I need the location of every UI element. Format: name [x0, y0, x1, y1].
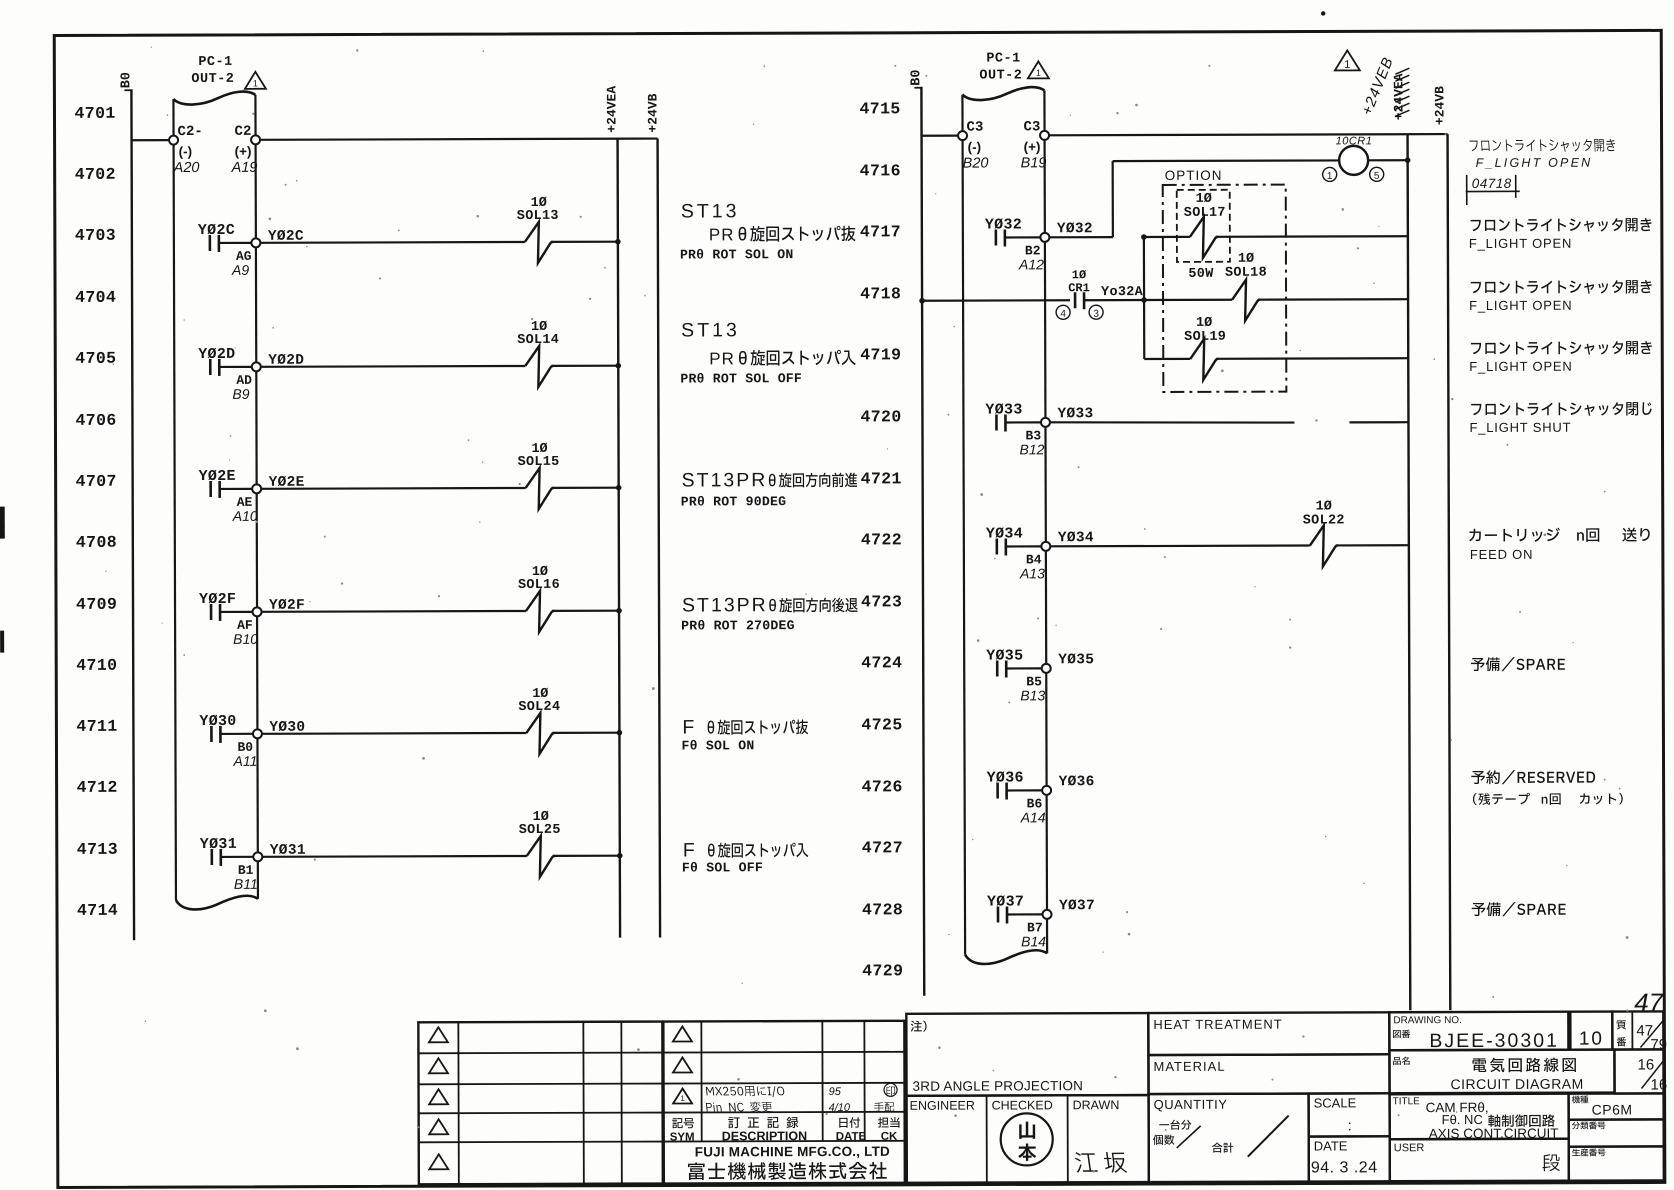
- svg-text:DATE: DATE: [836, 1131, 867, 1143]
- svg-text:ST13: ST13: [681, 319, 740, 341]
- svg-text:4708: 4708: [76, 533, 117, 552]
- svg-text:4729: 4729: [862, 961, 903, 980]
- rung description ST13 PR rot sol off: [680, 319, 856, 387]
- wire Y030 to solenoid: [262, 719, 527, 736]
- rung description ST13 PR rot 270deg: [681, 594, 858, 634]
- svg-text:4/10: 4/10: [829, 1102, 851, 1114]
- svg-text:1Ø: 1Ø: [1072, 268, 1086, 282]
- wire SOL24 to +24VEA rail: [552, 730, 622, 736]
- svg-text:YØ35: YØ35: [1058, 652, 1094, 668]
- svg-text:4701: 4701: [74, 104, 115, 123]
- wire SOL18 to +24VEA rail: [1258, 298, 1408, 301]
- revision triangle: [429, 1154, 448, 1169]
- class number box: [1569, 1119, 1664, 1146]
- svg-text:B10: B10: [233, 631, 258, 647]
- terminal B3 / B12: [1019, 418, 1050, 458]
- svg-text:OPTION: OPTION: [1165, 168, 1223, 183]
- solenoid SOL16 10: [518, 565, 560, 632]
- svg-text:HEAT TREATMENT: HEAT TREATMENT: [1153, 1017, 1282, 1032]
- quantity box: [1149, 1094, 1309, 1183]
- wire Y02C to solenoid: [260, 228, 525, 245]
- power rail 0B (right): [909, 70, 927, 996]
- contact Y037: [987, 893, 1042, 923]
- terminal B2 / A12: [1018, 233, 1050, 273]
- svg-text:4711: 4711: [76, 717, 117, 736]
- rung description ST13 PR rot 90deg: [681, 469, 858, 510]
- svg-text:Yo32A: Yo32A: [1101, 285, 1144, 300]
- description SPARE (4728): [1472, 902, 1566, 916]
- revision triangle: [429, 1119, 448, 1134]
- revision triangle: [429, 1089, 448, 1104]
- svg-text:94. 3 .24: 94. 3 .24: [1311, 1159, 1378, 1176]
- svg-text:A11: A11: [232, 753, 257, 769]
- svg-text:4705: 4705: [75, 349, 116, 368]
- revision triangle: [429, 1027, 448, 1042]
- description F_LIGHT SHUT (4720): [1469, 402, 1651, 435]
- wire bus C2+ to +24V rails: [260, 139, 657, 140]
- revision triangle: [673, 1026, 692, 1041]
- svg-text:YØ36: YØ36: [987, 769, 1024, 786]
- svg-text:B11: B11: [234, 876, 258, 892]
- svg-text:B12: B12: [1020, 441, 1045, 457]
- svg-text:A14: A14: [1020, 809, 1046, 825]
- svg-text:1Ø: 1Ø: [1316, 499, 1332, 514]
- date box: [1309, 1136, 1390, 1181]
- warning triangle 1 (right connector): [1028, 61, 1049, 78]
- wire SOL17 to +24VEA rail: [1216, 235, 1408, 238]
- svg-text:CP6M: CP6M: [1592, 1102, 1633, 1118]
- svg-text:CHECKED: CHECKED: [992, 1098, 1053, 1112]
- wire SOL16 to +24VEA rail: [552, 608, 622, 614]
- svg-text:PC-1: PC-1: [198, 55, 232, 70]
- svg-text:PRθ ROT 90DEG: PRθ ROT 90DEG: [681, 494, 787, 509]
- svg-text:YØ35: YØ35: [986, 647, 1023, 664]
- rung description F rot sol off: [682, 839, 809, 875]
- title box axis cont circuit: [1390, 1094, 1569, 1142]
- svg-text:A9: A9: [231, 262, 249, 278]
- svg-text:4725: 4725: [861, 715, 902, 734]
- rung description ST13 PR rot sol on: [680, 200, 856, 263]
- svg-text:YØ36: YØ36: [1059, 774, 1095, 790]
- svg-text:16: 16: [1651, 1076, 1668, 1093]
- wire bus from 0B to connector C2: [132, 139, 170, 141]
- contact Y02C: [198, 222, 251, 252]
- svg-text:Fθ SOL ON: Fθ SOL ON: [681, 738, 754, 753]
- svg-text:USER: USER: [1394, 1142, 1425, 1154]
- wire bus C3+ to +24V rails (right): [1049, 134, 1447, 135]
- revision table (left): [418, 1022, 663, 1185]
- heat treatment box: [1148, 1012, 1389, 1055]
- svg-text:F_LIGHT OPEN: F_LIGHT OPEN: [1469, 298, 1572, 313]
- solenoid SOL25 10: [519, 810, 561, 877]
- svg-text:4712: 4712: [77, 778, 118, 797]
- terminal C3- pin B20: [958, 120, 988, 172]
- power rail +24VB (left): [645, 93, 663, 937]
- solenoid SOL13 10: [517, 196, 559, 263]
- wire Y033 (interrupted): [1050, 405, 1409, 423]
- revision triangle: [429, 1058, 448, 1073]
- svg-text:C2-: C2-: [178, 124, 203, 140]
- contact Y02F: [199, 591, 252, 621]
- wire Y032 to coil branch: [1049, 221, 1113, 237]
- svg-text:(+): (+): [235, 144, 252, 159]
- svg-text:04718: 04718: [1472, 176, 1512, 191]
- svg-text:1: 1: [680, 1094, 685, 1103]
- svg-text:YØ2F: YØ2F: [199, 591, 236, 608]
- description RESERVED (4726): [1471, 770, 1623, 805]
- solenoid SOL22: [1303, 499, 1345, 566]
- power rail +24VEA (right, crossed out): [1391, 68, 1412, 1010]
- power rail +24VEA (left): [604, 86, 622, 938]
- description F_LIGHT OPEN (4718): [1469, 280, 1652, 313]
- svg-text:+24VB: +24VB: [1432, 86, 1447, 125]
- note box / projection: [906, 1013, 1148, 1096]
- svg-text:TITLE: TITLE: [1393, 1096, 1421, 1107]
- svg-text:F: F: [683, 839, 695, 861]
- revision triangle: [673, 1057, 692, 1072]
- svg-text:4720: 4720: [860, 407, 901, 426]
- company name FUJI MACHINE: [688, 1144, 890, 1180]
- contact Y02E: [199, 468, 252, 498]
- svg-text:95: 95: [829, 1086, 842, 1098]
- solenoid SOL14 10: [517, 320, 559, 387]
- wire SOL19 to +24VEA rail: [1216, 357, 1408, 360]
- node Y032A: [1084, 285, 1147, 303]
- svg-text:1Ø: 1Ø: [1196, 192, 1212, 207]
- wire Y02F to solenoid: [262, 597, 527, 614]
- svg-text:1Ø: 1Ø: [1238, 252, 1254, 267]
- svg-text:YØ2E: YØ2E: [199, 468, 236, 485]
- svg-text:4706: 4706: [75, 411, 116, 430]
- solenoid SOL24 10: [518, 687, 560, 754]
- svg-text:F_LIGHT OPEN: F_LIGHT OPEN: [1476, 156, 1593, 170]
- svg-text:4724: 4724: [861, 653, 902, 672]
- contact Y035: [986, 647, 1041, 677]
- product name circuit diagram box: [1389, 1050, 1614, 1094]
- right ladder line numbers 4715-4729: [859, 99, 903, 980]
- svg-text:4722: 4722: [861, 530, 902, 549]
- handwritten Esaka: [1074, 1152, 1127, 1173]
- terminal C2+ pin A19: [231, 124, 261, 176]
- svg-text:PR: PR: [709, 225, 735, 244]
- svg-text:C3: C3: [1024, 119, 1041, 135]
- svg-text:(-): (-): [968, 140, 982, 155]
- svg-text:ENGINEER: ENGINEER: [910, 1099, 975, 1113]
- svg-text:A13: A13: [1019, 565, 1045, 581]
- sheet number 10 box: [1570, 1012, 1612, 1050]
- svg-text:5: 5: [1374, 171, 1380, 182]
- svg-text:4707: 4707: [76, 472, 117, 491]
- svg-text:PRθ ROT SOL ON: PRθ ROT SOL ON: [680, 247, 794, 262]
- svg-text:B0: B0: [119, 72, 134, 88]
- svg-text:A20: A20: [173, 160, 200, 176]
- svg-text:C3: C3: [967, 120, 984, 136]
- svg-text:CIRCUIT DIAGRAM: CIRCUIT DIAGRAM: [1451, 1076, 1584, 1092]
- scan edge mark: [0, 507, 5, 539]
- terminal B0 / A11 on connector: [232, 729, 262, 769]
- description F_LIGHT OPEN (4717): [1469, 218, 1652, 251]
- contact Y036: [987, 769, 1042, 799]
- page 47/79 box: [1612, 1011, 1667, 1053]
- contact Y031: [200, 836, 253, 866]
- svg-text:1: 1: [1344, 59, 1350, 71]
- svg-text:4716: 4716: [860, 161, 901, 180]
- svg-text:PR: PR: [709, 349, 735, 368]
- svg-text:SCALE: SCALE: [1314, 1095, 1357, 1110]
- svg-text:4702: 4702: [75, 165, 116, 184]
- handwritten note 04718: [1466, 175, 1520, 205]
- power rail 0B (left): [119, 72, 137, 940]
- wire Y032 up to coil: [1112, 161, 1114, 237]
- wire Y034 to SOL22: [1050, 530, 1310, 547]
- revision triangle 1 with entry: [673, 1083, 897, 1114]
- contact Y032: [985, 216, 1040, 246]
- drawing number box BJEE-30301: [1389, 1012, 1568, 1053]
- svg-text:1Ø: 1Ø: [1196, 316, 1212, 331]
- svg-text:YØ33: YØ33: [1057, 406, 1093, 422]
- svg-text:PRθ ROT 270DEG: PRθ ROT 270DEG: [681, 618, 795, 633]
- production number box: [1569, 1146, 1664, 1180]
- terminal AD / B9 on connector: [232, 362, 261, 402]
- wire to SOL18: [1144, 299, 1232, 301]
- svg-text:C2: C2: [235, 124, 252, 140]
- terminal AG / A9 on connector: [231, 238, 261, 278]
- coil pin 1: [1323, 167, 1337, 182]
- wire SOL13 to +24VEA rail: [551, 239, 621, 245]
- svg-text:4714: 4714: [77, 901, 118, 920]
- revision table (middle): [663, 1021, 905, 1184]
- svg-text:DRAWN: DRAWN: [1073, 1098, 1120, 1112]
- contact 10 CR1 pins 4-3: [1068, 268, 1090, 309]
- connector PC-1 OUT-2 (right): [962, 51, 1047, 964]
- scan edge mark: [0, 631, 4, 653]
- svg-text:YØ34: YØ34: [1058, 530, 1094, 546]
- svg-text:3: 3: [1093, 309, 1099, 320]
- svg-text:4719: 4719: [860, 345, 901, 364]
- wire Y02E to solenoid: [261, 474, 526, 491]
- svg-text:4709: 4709: [76, 595, 117, 614]
- connector PC-1 OUT-2 (left): [173, 55, 258, 910]
- svg-text:YØ32: YØ32: [985, 216, 1022, 233]
- svg-text:4728: 4728: [862, 900, 903, 919]
- svg-text:FUJI MACHINE MFG.CO., LTD: FUJI MACHINE MFG.CO., LTD: [695, 1144, 890, 1160]
- solenoid SOL15 10: [518, 442, 560, 509]
- svg-text:4710: 4710: [76, 656, 117, 675]
- svg-text:YØ2C: YØ2C: [198, 222, 235, 239]
- svg-text:YØ37: YØ37: [1059, 898, 1095, 914]
- svg-text:4723: 4723: [861, 592, 902, 611]
- svg-text:B20: B20: [963, 156, 989, 172]
- contact pin 3: [1089, 305, 1103, 320]
- contact pin 4: [1056, 305, 1070, 320]
- material box: [1148, 1054, 1389, 1094]
- warning triangle 1 (top right): [1335, 50, 1360, 70]
- terminal B6 / A14: [1020, 786, 1052, 826]
- svg-text:4704: 4704: [75, 288, 116, 307]
- svg-text:F: F: [682, 716, 694, 738]
- svg-text:Fθ SOL OFF: Fθ SOL OFF: [682, 860, 763, 875]
- svg-text:B19: B19: [1021, 155, 1047, 171]
- terminal B5 / B13: [1020, 664, 1051, 704]
- svg-text:DATE: DATE: [1314, 1138, 1348, 1153]
- svg-text:PC-1: PC-1: [986, 51, 1020, 66]
- description F_LIGHT OPEN (handwritten): [1469, 139, 1615, 170]
- solenoid SOL17 (option): [1184, 192, 1226, 258]
- terminal B7 / B14: [1021, 910, 1052, 950]
- terminal AE / A10 on connector: [232, 484, 262, 524]
- rung description F rot sol on: [681, 716, 808, 753]
- svg-text:OUT-2: OUT-2: [979, 68, 1022, 83]
- contact Y02D: [198, 346, 251, 376]
- model CP6M box: [1569, 1093, 1664, 1119]
- SOL17 dashed sub-enclosure: [1177, 190, 1230, 262]
- svg-text:16: 16: [1637, 1056, 1654, 1073]
- svg-text:4: 4: [1060, 309, 1066, 320]
- terminal B4 / A13: [1019, 542, 1051, 582]
- svg-text:4715: 4715: [859, 99, 900, 118]
- terminal AF / B10 on connector: [233, 607, 262, 647]
- wire Y031 to solenoid: [262, 842, 527, 859]
- svg-text:DESCRIPTION: DESCRIPTION: [722, 1129, 807, 1143]
- svg-text:B14: B14: [1021, 933, 1046, 949]
- svg-text:F_LIGHT OPEN: F_LIGHT OPEN: [1469, 236, 1572, 251]
- svg-text:1: 1: [253, 78, 258, 88]
- svg-text:OUT-2: OUT-2: [191, 72, 234, 87]
- svg-text:+24VEA: +24VEA: [604, 86, 619, 133]
- svg-text:+24VB: +24VB: [645, 93, 660, 132]
- OPTION enclosure (dash-dot): [1163, 168, 1287, 392]
- wire SOL25 to +24VEA rail: [553, 853, 623, 859]
- svg-text:A10: A10: [232, 508, 258, 524]
- svg-text:F_LIGHT SHUT: F_LIGHT SHUT: [1469, 420, 1571, 435]
- svg-text:4718: 4718: [860, 284, 901, 303]
- svg-text:CR1: CR1: [1068, 281, 1090, 295]
- svg-text:QUANTITIY: QUANTITIY: [1154, 1097, 1228, 1112]
- svg-text:1: 1: [1327, 171, 1333, 182]
- svg-text:(-): (-): [179, 144, 193, 159]
- svg-text:3RD ANGLE PROJECTION: 3RD ANGLE PROJECTION: [913, 1078, 1084, 1094]
- solenoid SOL19: [1184, 316, 1226, 380]
- terminal C3+ pin B19: [1021, 119, 1050, 171]
- wire SOL22 to +24VEA rail: [1336, 544, 1409, 546]
- revision table headers: [670, 1117, 900, 1144]
- svg-text:DRAWING NO.: DRAWING NO.: [1393, 1015, 1462, 1026]
- svg-text:YØ30: YØ30: [199, 713, 236, 730]
- svg-text:A12: A12: [1018, 256, 1044, 272]
- warning triangle 1 (left): [245, 72, 266, 89]
- svg-text:4713: 4713: [77, 840, 118, 859]
- svg-text:FEED ON: FEED ON: [1470, 547, 1533, 562]
- solenoid SOL18: [1188, 252, 1267, 321]
- terminal C2- pin A20: [169, 124, 203, 176]
- svg-text:B0: B0: [909, 70, 924, 86]
- wire Y02D to solenoid: [261, 352, 526, 369]
- svg-text:4726: 4726: [862, 777, 903, 796]
- contact Y030: [199, 713, 252, 743]
- wire SOL14 to +24VEA rail: [551, 363, 621, 369]
- svg-text:MATERIAL: MATERIAL: [1153, 1059, 1225, 1074]
- svg-text:SYM: SYM: [670, 1131, 695, 1143]
- svg-text:YØ34: YØ34: [986, 525, 1023, 542]
- user box: [1390, 1139, 1569, 1182]
- wire 0B to CR1 contact: [919, 297, 1070, 303]
- svg-text:F_LIGHT OPEN: F_LIGHT OPEN: [1469, 359, 1572, 374]
- terminal B1 / B11 on connector: [234, 852, 263, 892]
- stamp Yamamoto: [1001, 1113, 1053, 1165]
- svg-text:YØ31: YØ31: [200, 836, 237, 853]
- svg-text:4727: 4727: [862, 838, 903, 857]
- power rail +24VB (right): [1432, 86, 1450, 1010]
- svg-text:B13: B13: [1020, 687, 1045, 703]
- description FEED ON (4722): [1469, 527, 1650, 562]
- contact Y034: [986, 525, 1041, 555]
- svg-text:4703: 4703: [75, 226, 116, 245]
- scale box: [1309, 1093, 1390, 1136]
- svg-text:(+): (+): [1024, 139, 1041, 154]
- svg-text:ST13PR: ST13PR: [682, 594, 768, 616]
- svg-text:4721: 4721: [861, 469, 902, 488]
- coil pin 5: [1370, 167, 1384, 182]
- wire Y032A branch to SOL17: [1141, 234, 1190, 240]
- wire to SOL19: [1144, 358, 1190, 360]
- svg-text:PRθ ROT SOL OFF: PRθ ROT SOL OFF: [680, 371, 802, 386]
- svg-text:YØ33: YØ33: [985, 401, 1022, 418]
- svg-text:ST13: ST13: [681, 200, 740, 222]
- svg-text:B9: B9: [232, 386, 249, 402]
- svg-text:CK: CK: [881, 1131, 898, 1143]
- svg-text::: :: [1348, 1117, 1352, 1134]
- wire bus from 0B to connector C3: [922, 135, 959, 137]
- svg-text:Fθ. NC: Fθ. NC: [1442, 1112, 1483, 1127]
- wire SOL15 to +24VEA rail: [552, 485, 622, 491]
- svg-text:4717: 4717: [860, 222, 901, 241]
- svg-text:ST13PR: ST13PR: [682, 469, 768, 491]
- svg-text:YØ2D: YØ2D: [198, 346, 235, 363]
- relay coil 10CR1: [1113, 135, 1411, 175]
- engineer / checked / drawn row: [907, 1095, 1149, 1183]
- svg-text:10: 10: [1579, 1029, 1604, 1050]
- svg-text:YØ37: YØ37: [987, 893, 1024, 910]
- description SPARE (4724): [1471, 657, 1565, 671]
- svg-text:YØ32: YØ32: [1057, 221, 1093, 237]
- svg-text:47: 47: [1634, 987, 1665, 1017]
- svg-text:A19: A19: [231, 160, 258, 176]
- wire branch down from Y032 rung: [1143, 237, 1146, 359]
- svg-text:50W: 50W: [1188, 267, 1214, 282]
- left ladder line numbers 4701-4714: [74, 104, 118, 920]
- page 16/16 box: [1614, 1049, 1667, 1093]
- contact Y033: [985, 401, 1040, 431]
- description F_LIGHT OPEN (4719): [1469, 341, 1652, 374]
- svg-text:1: 1: [1036, 68, 1041, 78]
